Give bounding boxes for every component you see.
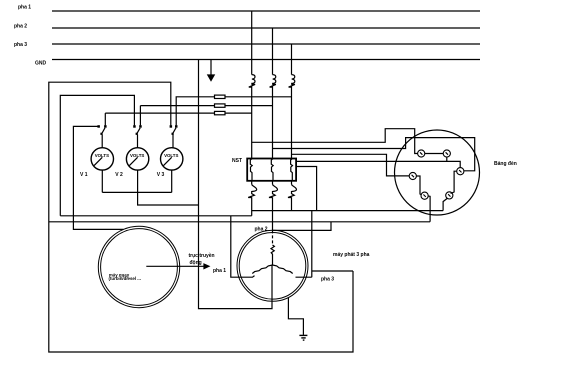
svg-text:NST: NST <box>232 158 242 164</box>
svg-text:V 1: V 1 <box>80 172 88 178</box>
svg-text:pha 2: pha 2 <box>14 24 27 30</box>
svg-text:GND: GND <box>35 61 47 67</box>
svg-text:pha 1: pha 1 <box>18 5 31 11</box>
svg-text:động: động <box>190 260 202 266</box>
svg-text:VOLTS: VOLTS <box>164 153 178 158</box>
svg-text:pha 3: pha 3 <box>321 276 334 282</box>
svg-text:pha 1: pha 1 <box>213 268 226 274</box>
svg-text:trục truyền: trục truyền <box>189 253 215 259</box>
svg-text:máy phát 3 pha: máy phát 3 pha <box>333 252 370 258</box>
svg-text:V 3: V 3 <box>157 172 165 178</box>
svg-text:Bảng đèn: Bảng đèn <box>494 161 517 167</box>
svg-text:pha 3: pha 3 <box>14 42 27 48</box>
svg-text:pha 2: pha 2 <box>255 226 268 232</box>
svg-text:VOLTS: VOLTS <box>95 153 109 158</box>
svg-text:(turbin/diesel ...: (turbin/diesel ... <box>109 276 141 281</box>
svg-text:V 2: V 2 <box>115 172 123 178</box>
svg-text:VOLTS: VOLTS <box>130 153 144 158</box>
